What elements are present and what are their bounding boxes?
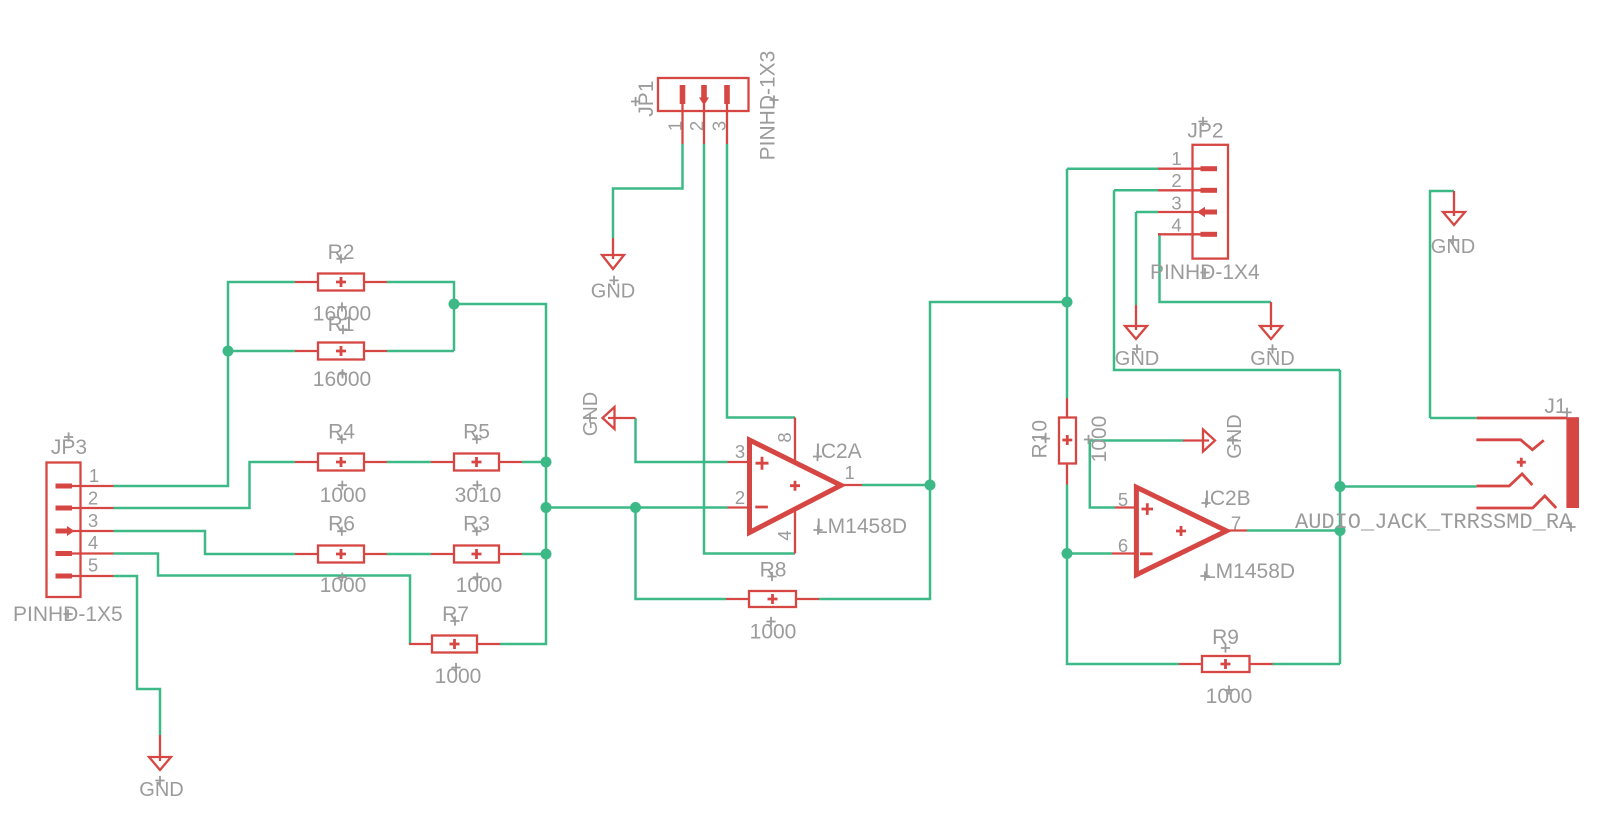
svg-text:8: 8 [774, 432, 795, 442]
svg-text:1: 1 [665, 121, 686, 131]
svg-text:J1: J1 [1544, 395, 1566, 418]
svg-text:LM1458D: LM1458D [1204, 560, 1295, 583]
svg-text:4: 4 [774, 530, 795, 540]
svg-text:5: 5 [88, 555, 98, 576]
svg-text:1: 1 [89, 465, 99, 486]
svg-text:2: 2 [1171, 170, 1181, 191]
svg-text:1: 1 [1171, 148, 1181, 169]
svg-text:2: 2 [686, 121, 707, 131]
svg-text:3: 3 [1171, 192, 1181, 213]
svg-text:1000: 1000 [750, 620, 797, 643]
svg-text:JP1: JP1 [635, 81, 658, 117]
svg-text:2: 2 [735, 487, 745, 508]
svg-text:GND: GND [139, 779, 183, 801]
svg-text:R8: R8 [760, 558, 787, 581]
svg-text:IC2A: IC2A [815, 440, 862, 463]
svg-text:6: 6 [1118, 535, 1128, 556]
svg-text:JP2: JP2 [1187, 120, 1223, 143]
svg-text:1000: 1000 [435, 665, 482, 688]
svg-text:LM1458D: LM1458D [816, 515, 907, 538]
svg-text:4: 4 [1171, 215, 1181, 236]
svg-text:1: 1 [845, 462, 855, 483]
svg-text:IC2B: IC2B [1204, 487, 1251, 510]
svg-text:PINHD-1X3: PINHD-1X3 [757, 51, 780, 161]
svg-text:3: 3 [88, 510, 98, 531]
svg-text:2: 2 [88, 487, 98, 508]
svg-text:GND: GND [1224, 414, 1246, 458]
svg-text:4: 4 [88, 532, 98, 553]
svg-text:7: 7 [1231, 513, 1241, 534]
svg-text:GND: GND [580, 392, 602, 436]
svg-text:R1: R1 [328, 313, 355, 336]
svg-text:5: 5 [1118, 489, 1128, 510]
svg-text:3: 3 [735, 441, 745, 462]
svg-text:GND: GND [591, 280, 635, 302]
svg-text:3: 3 [709, 121, 730, 131]
svg-text:AUDIO_JACK_TRRSSMD_RA: AUDIO_JACK_TRRSSMD_RA [1295, 510, 1573, 535]
